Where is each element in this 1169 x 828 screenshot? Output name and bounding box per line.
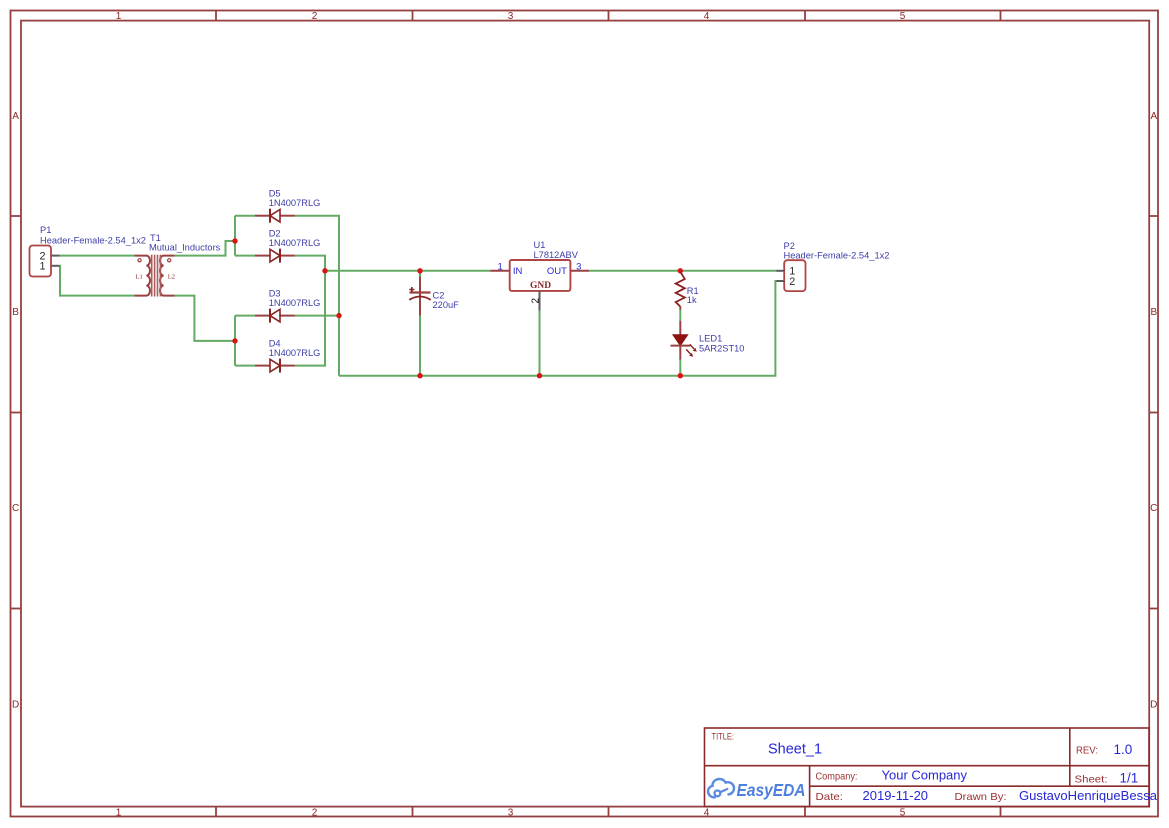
svg-text:Date:: Date: <box>816 792 844 803</box>
svg-text:2: 2 <box>312 11 318 22</box>
svg-text:Sheet:: Sheet: <box>1075 775 1108 786</box>
svg-text:Header-Female-2.54_1x2: Header-Female-2.54_1x2 <box>40 235 146 245</box>
svg-text:1: 1 <box>498 261 503 272</box>
svg-text:2: 2 <box>531 298 542 304</box>
svg-text:REV:: REV: <box>1076 746 1098 757</box>
svg-text:3: 3 <box>508 808 514 819</box>
svg-text:220uF: 220uF <box>433 300 460 310</box>
svg-text:1: 1 <box>116 808 122 819</box>
svg-text:4: 4 <box>704 808 710 819</box>
svg-text:1.0: 1.0 <box>1114 742 1133 757</box>
svg-text:5: 5 <box>900 11 906 22</box>
svg-text:OUT: OUT <box>547 266 567 277</box>
svg-text:Your Company: Your Company <box>882 768 968 783</box>
svg-text:GustavoHenriqueBessa: GustavoHenriqueBessa <box>1019 788 1158 803</box>
svg-text:C: C <box>12 503 19 514</box>
svg-text:L1: L1 <box>136 274 143 281</box>
svg-text:B: B <box>1150 307 1157 318</box>
svg-text:U1: U1 <box>534 240 546 250</box>
svg-text:2019-11-20: 2019-11-20 <box>863 788 929 803</box>
svg-text:1: 1 <box>39 261 45 273</box>
svg-text:A: A <box>1150 111 1157 122</box>
svg-text:3: 3 <box>576 261 581 272</box>
svg-text:Drawn By:: Drawn By: <box>955 792 1007 803</box>
svg-text:Mutual_Inductors: Mutual_Inductors <box>149 242 221 252</box>
svg-text:2: 2 <box>312 808 318 819</box>
svg-text:1N4007RLG: 1N4007RLG <box>269 298 321 308</box>
svg-text:GND: GND <box>530 281 551 291</box>
svg-text:Header-Female-2.54_1x2: Header-Female-2.54_1x2 <box>784 250 890 260</box>
svg-text:L7812ABV: L7812ABV <box>534 250 579 260</box>
svg-text:1N4007RLG: 1N4007RLG <box>269 238 321 248</box>
svg-text:D: D <box>12 699 19 710</box>
svg-text:LED1: LED1 <box>699 334 722 344</box>
svg-text:1k: 1k <box>687 295 697 305</box>
svg-text:D: D <box>1150 699 1157 710</box>
svg-text:4: 4 <box>704 11 710 22</box>
svg-text:5: 5 <box>900 808 906 819</box>
svg-text:TITLE:: TITLE: <box>712 732 735 742</box>
svg-text:T1: T1 <box>150 233 161 243</box>
svg-text:A: A <box>12 111 19 122</box>
svg-text:5AR2ST10: 5AR2ST10 <box>699 343 744 353</box>
svg-text:P1: P1 <box>40 225 51 235</box>
svg-text:2: 2 <box>789 276 795 288</box>
svg-text:Sheet_1: Sheet_1 <box>768 742 822 758</box>
svg-text:1/1: 1/1 <box>1120 771 1139 786</box>
svg-text:Company:: Company: <box>816 772 858 783</box>
svg-text:L2: L2 <box>168 274 175 281</box>
svg-text:3: 3 <box>508 11 514 22</box>
svg-text:1: 1 <box>116 11 122 22</box>
svg-text:IN: IN <box>513 266 523 277</box>
svg-text:C2: C2 <box>433 291 445 301</box>
svg-text:EasyEDA: EasyEDA <box>737 780 806 800</box>
svg-text:B: B <box>12 307 19 318</box>
svg-text:1N4007RLG: 1N4007RLG <box>269 198 321 208</box>
svg-text:1N4007RLG: 1N4007RLG <box>269 348 321 358</box>
svg-text:C: C <box>1150 503 1157 514</box>
